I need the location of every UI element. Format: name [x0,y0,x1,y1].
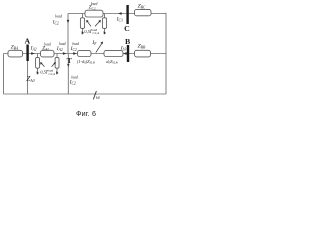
pointer arrow to shunt A2 left [41,63,45,67]
resistor shunt A2 left [36,57,40,68]
arrowhead pointer A2 left [40,62,42,65]
node bar C [126,5,128,24]
fault current diagonal arrow [96,43,103,53]
svg-text:ZA2: ZA2 [42,45,49,51]
wire stub load C2 right [104,14,106,33]
pointer arrow to shunt C2 left [87,21,91,27]
wire top horizontal [68,13,166,15]
node bar B [127,45,129,62]
svg-text:0,5IloadC2,A: 0,5IloadC2,A [84,28,99,36]
wire left vertical [3,54,5,95]
svg-text:B: B [125,37,130,46]
wire node A down branch [27,54,29,95]
wire middle horizontal [4,53,167,55]
arrowhead pointer A2 right [53,62,55,65]
svg-text:IC2: IC2 [70,46,77,52]
svg-text:load: load [72,42,79,46]
arrowhead shunt A2 right lead [56,71,59,74]
arrow I_C2load right of T [73,52,76,55]
impedance Z_BB [135,50,151,57]
svg-text:ZA0: ZA0 [26,75,34,83]
svg-text:Фиг. 6: Фиг. 6 [76,109,96,118]
resistor shunt C2 right [102,18,106,29]
arrow down below T [67,64,69,67]
svg-text:T: T [67,56,73,65]
arrow I_A2load on middle wire [63,52,66,55]
svg-text:load: load [55,14,62,18]
pointer arrow to shunt C2 right [95,21,100,27]
impedance Z_BA [8,50,23,57]
label I_b0 [93,91,100,100]
arrowhead pointer C2 left [86,20,89,23]
arrowhead shunt A2 left lead [37,71,40,74]
svg-text:ZC2: ZC2 [89,5,96,11]
svg-text:load: load [59,42,66,46]
arrowhead fault diagonal [100,42,103,45]
arrowhead shunt C2 left lead [82,31,85,34]
resistor shunt C2 left [80,18,84,29]
wire stub load A2 right [56,54,58,73]
svg-text:IC2: IC2 [69,80,76,86]
arrow down on T up branch [67,20,70,23]
svg-text:ZBC: ZBC [138,4,146,10]
arrow I_A2 on middle wire [31,52,34,55]
wire bottom bus [4,93,167,95]
svg-text:IC3: IC3 [116,17,123,23]
impedance d Z_SLB [104,51,123,57]
svg-text:(1-d0)ZSLB: (1-d0)ZSLB [77,59,95,65]
svg-text:Ib3: Ib3 [120,45,127,51]
svg-text:C: C [124,24,130,33]
svg-text:IC2: IC2 [52,20,59,25]
wire stub load A2 left [37,54,39,73]
resistor shunt A2 right [55,57,59,68]
arrow I_C3 pointing left on top wire [118,12,121,15]
wire right vertical [165,13,167,94]
svg-text:IA2: IA2 [30,45,37,51]
svg-text:IF: IF [91,40,97,46]
svg-text:load: load [91,2,98,6]
wire T up branch [67,14,69,54]
svg-text:0,5IloadC2,A: 0,5IloadC2,A [40,68,55,76]
impedance (1-d)Z_SLB [78,51,92,57]
impedance Z_BC [135,9,152,15]
svg-text:ZBA: ZBA [11,45,19,51]
arrow I_b3 pointing left [123,52,126,55]
svg-text:IA2: IA2 [56,46,63,52]
arrowhead pointer C2 right [98,20,101,23]
svg-text:b0: b0 [96,96,100,100]
node bar A [26,45,28,62]
svg-text:d0ZSLB: d0ZSLB [106,59,117,65]
svg-text:A: A [25,36,31,45]
svg-text:load: load [71,76,78,80]
arrowhead shunt C2 right lead [104,31,107,34]
pointer arrow to shunt A2 right [52,63,56,67]
svg-text:ZBB: ZBB [138,44,146,50]
impedance Z_C2 load [85,10,103,17]
wire stub load C2 left [82,14,84,33]
wire T down branch [67,54,69,95]
impedance Z_A2 load [41,50,55,57]
